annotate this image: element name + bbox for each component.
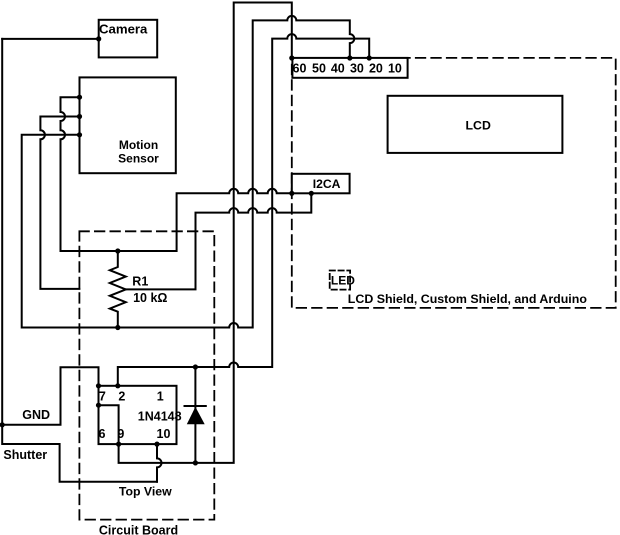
node: motion sensor pin 1 bbox=[77, 95, 82, 100]
node: header pin 20 bbox=[367, 55, 372, 60]
node: diode top bbox=[193, 364, 198, 369]
box: LCD bbox=[388, 96, 563, 153]
box: IC Top View bbox=[99, 386, 177, 444]
svg-text:1: 1 bbox=[157, 390, 164, 404]
svg-text:Sensor: Sensor bbox=[118, 152, 159, 166]
svg-text:7: 7 bbox=[99, 390, 106, 404]
dashed box: LCD Shield, Custom Shield, and Arduino bbox=[292, 58, 616, 308]
svg-text:2: 2 bbox=[118, 390, 125, 404]
svg-text:Circuit Board: Circuit Board bbox=[99, 523, 178, 535]
node: R1 bottom bbox=[115, 325, 120, 330]
svg-text:20: 20 bbox=[369, 61, 383, 75]
node: I2CA corner bbox=[289, 191, 294, 196]
svg-text:Camera: Camera bbox=[99, 22, 148, 37]
node: GND junction bbox=[0, 422, 5, 427]
node: IC corner pin 7 bbox=[96, 383, 101, 388]
node: IC pin 9 bbox=[116, 442, 121, 447]
wire: shutter run bbox=[2, 425, 157, 482]
node: IC pin 2 bbox=[115, 383, 120, 388]
svg-text:10: 10 bbox=[157, 427, 171, 441]
wire 3: IC pin 2 / diode top to header pin 20 bbox=[118, 34, 369, 386]
dashed box: LED bbox=[330, 271, 350, 290]
node: header pin 60 bbox=[289, 55, 294, 60]
diode D1 1N4148 bbox=[194, 367, 196, 463]
wire: left bus vertical (camera/GND/shutter) bbox=[1, 39, 3, 425]
wire: R1 tap / wire B to I2CA bbox=[126, 193, 311, 289]
svg-text:10 kΩ: 10 kΩ bbox=[133, 291, 167, 305]
wire: camera feed horizontal bbox=[2, 38, 99, 40]
wire: GND run to IC pin 7 bbox=[2, 367, 98, 425]
dashed box: Circuit Board bbox=[79, 231, 214, 519]
svg-text:Shutter: Shutter bbox=[3, 448, 47, 462]
svg-text:10: 10 bbox=[388, 61, 402, 75]
node: header pin 30 bbox=[347, 55, 352, 60]
node: IC left edge tap bbox=[96, 403, 101, 408]
node: R1 top bbox=[115, 248, 120, 253]
svg-text:GND: GND bbox=[22, 408, 50, 422]
svg-text:R1: R1 bbox=[132, 274, 148, 288]
svg-text:1N4148: 1N4148 bbox=[138, 409, 182, 423]
wire 1: header pin 60 long loop to IC pin 9 row bbox=[119, 3, 292, 463]
wire: motion pin3 / R1 bottom rail / wire 2 to header pin 30 bbox=[22, 16, 355, 328]
node: motion sensor pin 3 bbox=[77, 132, 82, 137]
svg-text:6: 6 bbox=[99, 427, 106, 441]
wire: motion pin2 dead-end at board edge bbox=[40, 117, 79, 289]
wire: motion pin1 to R1 top rail and wire A to I2CA bbox=[61, 97, 292, 251]
node: motion sensor pin 2 bbox=[77, 114, 82, 119]
wire: IC internal pin7 to pin9 bbox=[99, 405, 119, 444]
svg-text:Top View: Top View bbox=[119, 484, 172, 498]
svg-text:Motion: Motion bbox=[119, 138, 158, 152]
wire: shutter riser to pin 10 (hop over y=462.9) bbox=[157, 444, 162, 482]
svg-text:I2CA: I2CA bbox=[313, 177, 341, 191]
box: Camera bbox=[99, 20, 158, 58]
svg-text:50: 50 bbox=[312, 61, 326, 75]
box: header strip 60..10 bbox=[292, 58, 407, 78]
svg-text:LCD: LCD bbox=[466, 119, 491, 133]
node: camera pin bbox=[96, 36, 101, 41]
resistor R1 bbox=[110, 251, 126, 328]
svg-text:LCD Shield, Custom Shield, and: LCD Shield, Custom Shield, and Arduino bbox=[348, 292, 588, 306]
box: I2CA bbox=[292, 174, 350, 194]
svg-text:40: 40 bbox=[331, 61, 345, 75]
node: diode bottom bbox=[193, 460, 198, 465]
box: Motion Sensor bbox=[80, 77, 176, 173]
svg-text:30: 30 bbox=[350, 61, 364, 75]
svg-text:LED: LED bbox=[331, 273, 355, 287]
svg-text:60: 60 bbox=[293, 61, 307, 75]
node: IC pin 10 bbox=[154, 442, 159, 447]
svg-text:9: 9 bbox=[117, 427, 124, 441]
node: I2CA bottom bbox=[309, 191, 314, 196]
